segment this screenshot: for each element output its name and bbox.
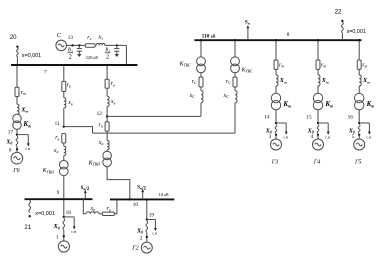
svg-text:2: 2 [69, 55, 72, 61]
svg-text:rС: rС [192, 79, 197, 85]
svg-text:x=0,001: x=0,001 [22, 53, 41, 59]
svg-text:rС: rС [226, 79, 231, 85]
svg-text:110 кВ: 110 кВ [202, 33, 216, 39]
svg-text:16: 16 [348, 114, 354, 120]
svg-text:Xт: Xт [20, 106, 28, 113]
svg-text:с.н: с.н [283, 135, 288, 139]
svg-text:x=0,001: x=0,001 [35, 211, 54, 217]
svg-text:4: 4 [311, 134, 314, 140]
svg-text:Г2: Г2 [131, 245, 138, 251]
svg-text:с.н: с.н [71, 230, 76, 234]
svg-text:1: 1 [56, 235, 59, 241]
svg-text:с.н: с.н [366, 135, 371, 139]
svg-text:rв: rв [111, 81, 115, 87]
svg-text:rн: rн [55, 135, 59, 141]
svg-text:KТВН: KТВН [88, 160, 101, 166]
svg-text:rт: rт [321, 62, 326, 68]
svg-text:Sн: Sн [245, 19, 250, 25]
svg-text:KТВС: KТВС [179, 62, 191, 68]
svg-text:rл: rл [87, 35, 91, 41]
svg-text:xн: xн [53, 148, 59, 154]
svg-text:с.н: с.н [25, 147, 30, 151]
svg-text:xС: xС [223, 93, 230, 99]
svg-text:2: 2 [140, 236, 143, 242]
svg-text:220 кВ: 220 кВ [86, 55, 99, 60]
svg-text:Г6: Г6 [12, 168, 19, 174]
svg-text:7: 7 [44, 70, 47, 76]
svg-text:6: 6 [9, 148, 12, 154]
svg-text:Xт: Xт [321, 77, 329, 84]
svg-text:rв: rв [67, 83, 71, 89]
svg-text:xр: xр [90, 206, 96, 212]
svg-text:rр: rр [107, 206, 111, 212]
svg-text:10 кВ: 10 кВ [158, 192, 169, 197]
svg-text:11: 11 [55, 121, 60, 127]
svg-text:rт: rт [21, 90, 26, 96]
svg-text:Kт: Kт [282, 100, 291, 108]
svg-text:20: 20 [10, 34, 17, 41]
svg-text:Г3: Г3 [271, 159, 278, 165]
svg-text:X0: X0 [136, 228, 143, 235]
svg-text:18: 18 [66, 210, 72, 216]
svg-text:rн: rн [99, 122, 103, 128]
svg-text:8: 8 [287, 32, 290, 38]
svg-text:xн: xн [98, 140, 104, 146]
svg-text:x=0,001: x=0,001 [347, 29, 366, 35]
svg-text:С: С [57, 32, 62, 39]
svg-text:9: 9 [57, 190, 60, 196]
svg-text:Xт: Xт [362, 77, 370, 84]
svg-text:с.н: с.н [152, 232, 157, 236]
svg-text:10: 10 [133, 202, 139, 208]
svg-text:3: 3 [269, 134, 272, 140]
svg-text:17: 17 [8, 129, 14, 135]
svg-text:xл: xл [98, 35, 104, 41]
svg-text:15: 15 [306, 114, 312, 120]
svg-text:rт: rт [362, 62, 367, 68]
svg-text:Kт: Kт [324, 100, 333, 108]
svg-text:12: 12 [97, 111, 103, 117]
svg-text:14: 14 [264, 114, 270, 120]
svg-text:Kт: Kт [366, 100, 375, 108]
svg-text:с.н: с.н [325, 135, 330, 139]
svg-text:Г4: Г4 [313, 158, 320, 165]
svg-text:Г5: Г5 [354, 159, 361, 165]
svg-text:xС: xС [189, 93, 196, 99]
svg-text:KТВН: KТВН [42, 168, 55, 174]
svg-text:KТВС: KТВС [241, 67, 253, 73]
svg-text:Sн/2: Sн/2 [137, 185, 146, 191]
svg-text:22: 22 [335, 9, 342, 16]
svg-text:19: 19 [149, 213, 155, 219]
svg-text:rт: rт [279, 62, 284, 68]
svg-text:Kт: Kт [22, 120, 31, 128]
svg-text:13: 13 [68, 35, 74, 41]
svg-text:xв: xв [67, 100, 73, 106]
svg-text:5: 5 [352, 134, 355, 140]
svg-text:Xт: Xт [279, 77, 287, 84]
svg-text:2: 2 [106, 55, 109, 61]
svg-text:X0: X0 [5, 138, 12, 145]
svg-text:21: 21 [24, 224, 31, 231]
svg-text:X0: X0 [53, 223, 60, 230]
svg-text:xв: xв [110, 99, 116, 105]
